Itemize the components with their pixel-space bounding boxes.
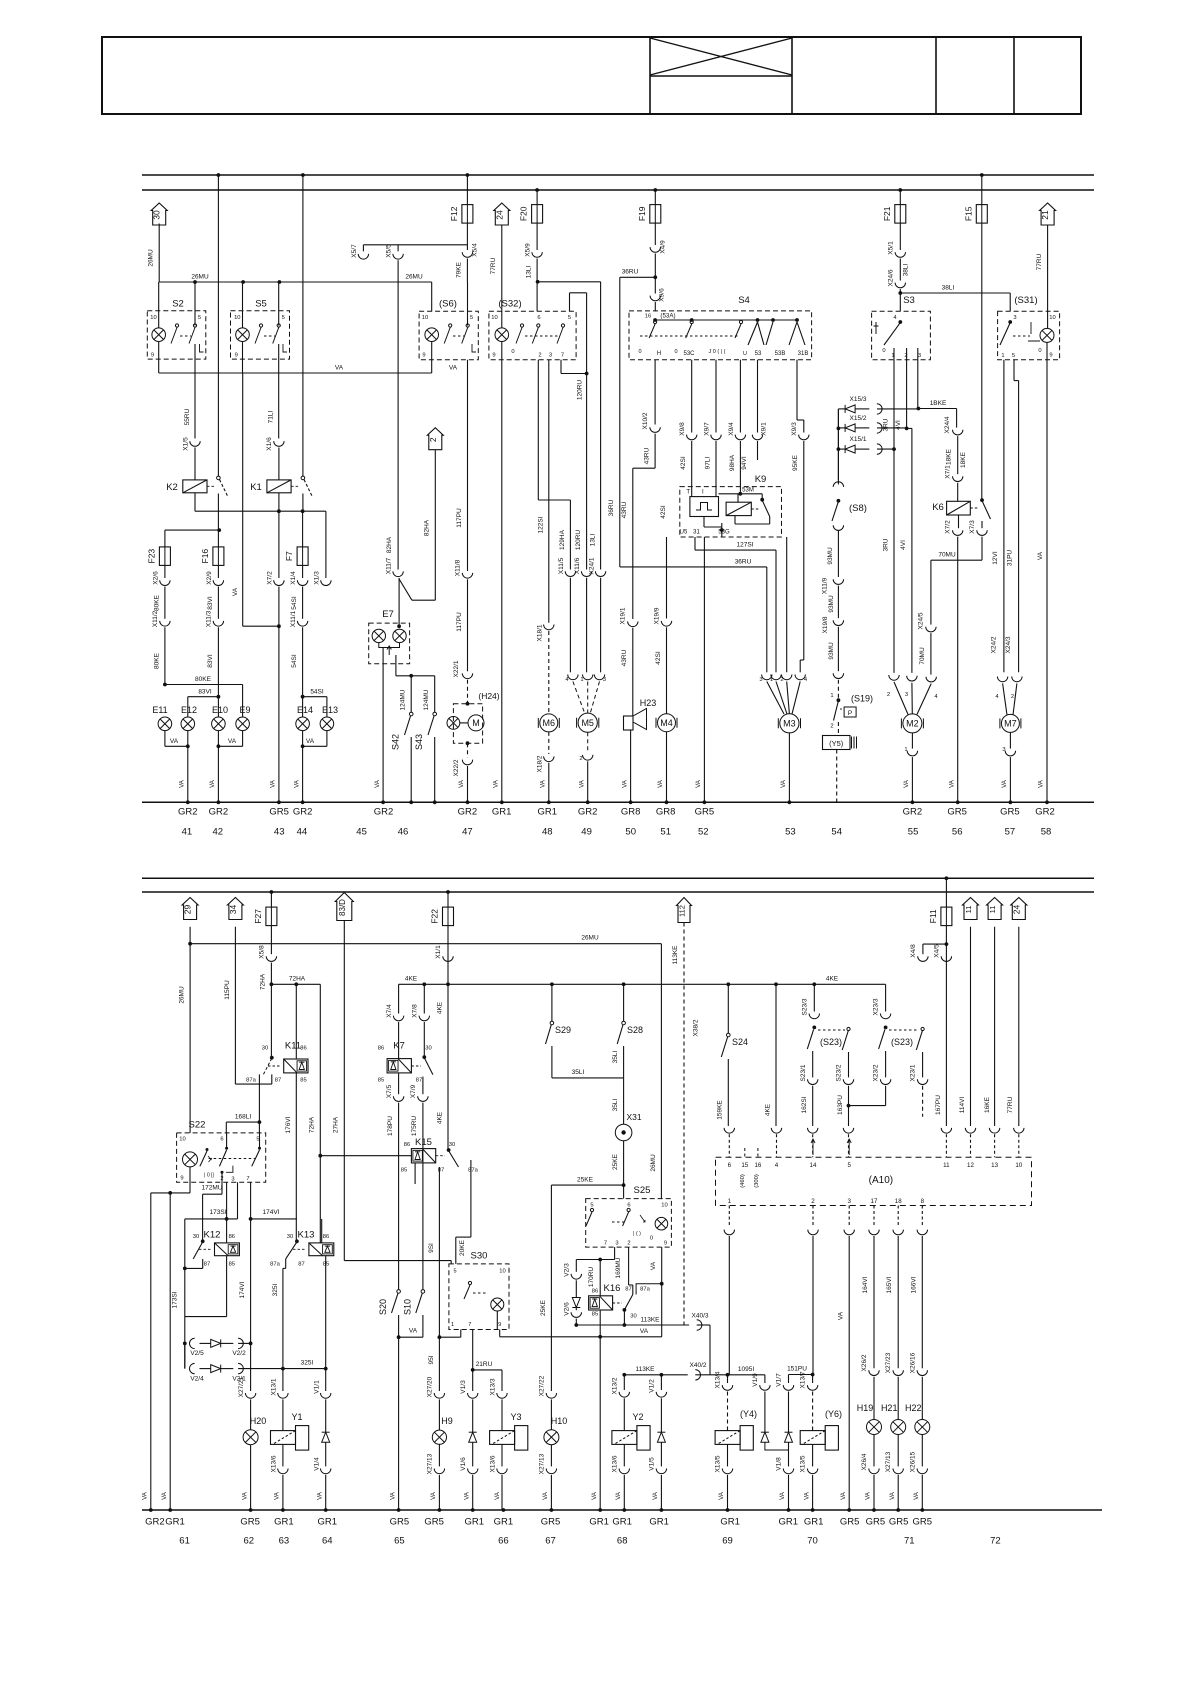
- wire K13 85 down: [325, 1256, 327, 1369]
- connector X26/4: [869, 1469, 879, 1474]
- wire S29 down: [551, 1046, 553, 1078]
- svg-text:GR2: GR2: [458, 807, 478, 818]
- ground junction: [1009, 800, 1013, 804]
- svg-text:5: 5: [1012, 353, 1015, 359]
- K7 contact pivot: [422, 1055, 426, 1059]
- svg-text:1BKE: 1BKE: [930, 400, 947, 407]
- connector X31: [615, 1124, 632, 1141]
- wire M2 lead 2: [894, 682, 908, 715]
- wire K1 contact out: [302, 494, 304, 512]
- svg-text:F7: F7: [284, 551, 294, 561]
- wire 4VI upper: [906, 360, 908, 429]
- svg-text:6: 6: [728, 1162, 732, 1169]
- svg-text:GR1: GR1: [779, 1517, 799, 1528]
- connector X26/15: [917, 1469, 927, 1474]
- svg-text:82HA: 82HA: [386, 536, 393, 553]
- svg-text:M5: M5: [581, 718, 594, 728]
- wire S30 lamp stub: [496, 1311, 498, 1330]
- wire Y2 down: [623, 1444, 625, 1466]
- svg-text:95I: 95I: [428, 1355, 435, 1364]
- svg-text:26MU: 26MU: [191, 273, 209, 280]
- lamp H21: [891, 1420, 906, 1435]
- svg-text:GR1: GR1: [538, 807, 558, 818]
- junction V2/2: [249, 1342, 253, 1346]
- lamp E9: [236, 717, 250, 731]
- relay K13 coil: [309, 1243, 334, 1256]
- svg-text:VA: VA: [542, 1491, 549, 1500]
- connector X5/5 stub: [397, 245, 399, 252]
- svg-text:82HA: 82HA: [424, 519, 431, 536]
- switch S42 pivot: [409, 712, 413, 716]
- svg-text:3: 3: [603, 677, 606, 683]
- junction 4KE S29: [550, 982, 554, 986]
- svg-text:VA: VA: [430, 1491, 437, 1500]
- A10 pin lead: [812, 1134, 814, 1157]
- svg-text:12VI: 12VI: [992, 551, 999, 565]
- connector X13/5 Y4: [722, 1469, 732, 1474]
- svg-text:30: 30: [193, 1234, 199, 1240]
- svg-text:48: 48: [542, 827, 553, 838]
- svg-text:127SI: 127SI: [737, 542, 754, 549]
- A10 bottom lead 18: [897, 1206, 899, 1228]
- svg-text:174VI: 174VI: [239, 1281, 246, 1298]
- connector X9/4: [735, 435, 745, 440]
- wire H9 ground: [438, 1475, 440, 1510]
- connector X27/13 H9: [434, 1469, 444, 1474]
- svg-text:S42: S42: [391, 734, 401, 750]
- wire to lamp H22: [921, 1377, 923, 1420]
- connector X1/6: [274, 441, 284, 446]
- svg-text:K6: K6: [932, 502, 944, 513]
- svg-text:VA: VA: [840, 1491, 847, 1500]
- pressure switch P box: [844, 707, 856, 717]
- wire S6 pin5 top: [467, 282, 469, 326]
- wire S20 ground: [398, 1337, 400, 1510]
- wire 71LI: [278, 344, 280, 439]
- svg-text:7: 7: [561, 353, 564, 359]
- wire X40/3 out: [697, 1324, 710, 1326]
- svg-text:25KE: 25KE: [577, 1176, 594, 1183]
- svg-text:95KE: 95KE: [792, 454, 799, 471]
- svg-text:13LI: 13LI: [526, 265, 533, 278]
- arrow 2: [427, 428, 443, 450]
- svg-text:26MU: 26MU: [148, 249, 155, 267]
- diode V1/5: [657, 1432, 665, 1442]
- svg-text:X2/6: X2/6: [153, 571, 160, 585]
- svg-text:2: 2: [811, 1198, 815, 1205]
- wire S42 ground: [410, 737, 412, 802]
- junction 113KE V2: [574, 1323, 578, 1327]
- wire E11-E12 join: [165, 745, 188, 747]
- svg-text:GR5: GR5: [913, 1517, 933, 1528]
- junction VA to ground wire: [277, 624, 281, 628]
- K13 link: [293, 1248, 306, 1250]
- wire S31 lamp ground: [1046, 342, 1048, 802]
- wire V1/3 drop: [472, 1370, 474, 1391]
- wire F20 to X5/9: [536, 223, 538, 250]
- S4 contact 31B arm1: [766, 322, 773, 345]
- svg-text:X27/21: X27/21: [238, 1376, 245, 1397]
- wire 162SI: [812, 1086, 814, 1126]
- svg-text:X24/2: X24/2: [991, 636, 998, 653]
- svg-text:(S23): (S23): [891, 1037, 913, 1047]
- svg-text:53B: 53B: [775, 351, 786, 357]
- svg-text:9: 9: [498, 1322, 501, 1328]
- svg-text:1: 1: [728, 1198, 732, 1205]
- svg-text:X26/16: X26/16: [909, 1352, 916, 1373]
- X23 link dash: [889, 1029, 919, 1031]
- connector X15/1: [877, 444, 882, 454]
- svg-text:113KE: 113KE: [640, 1317, 660, 1324]
- K9 inner wire e: [734, 516, 736, 524]
- svg-text:72HA: 72HA: [309, 1116, 316, 1133]
- svg-text:VA: VA: [306, 738, 315, 745]
- svg-text:42SI: 42SI: [660, 505, 667, 519]
- svg-text:F23: F23: [146, 549, 156, 564]
- connector X5/1: [895, 252, 905, 257]
- svg-text:VA: VA: [640, 1328, 649, 1335]
- connector X23/1: [917, 1079, 927, 1084]
- wire S22 lamp down: [189, 1167, 191, 1193]
- lamp E10: [212, 717, 226, 731]
- warning unit H24 box: [453, 704, 482, 744]
- svg-text:VA: VA: [718, 1491, 725, 1500]
- connector X27/20: [434, 1393, 444, 1398]
- K9 junction 53M: [738, 492, 742, 496]
- connector X13/1: [278, 1393, 288, 1398]
- ground junction bottom: [726, 1508, 730, 1512]
- svg-text:M: M: [472, 718, 480, 728]
- svg-text:S4: S4: [738, 295, 750, 306]
- svg-text:VA: VA: [335, 365, 344, 372]
- svg-text:X23/2: X23/2: [873, 1064, 880, 1081]
- svg-text:S5: S5: [255, 299, 267, 310]
- S22 contact 1 arm: [200, 1151, 207, 1166]
- svg-text:72: 72: [990, 1536, 1001, 1547]
- motor M7 pin 2: [1012, 677, 1022, 682]
- svg-text:3: 3: [918, 353, 921, 359]
- svg-text:18: 18: [895, 1198, 902, 1205]
- wire K16 30 down: [623, 1310, 625, 1325]
- junction S4 a: [653, 318, 657, 322]
- wire S22 ground link: [151, 1192, 190, 1194]
- switch S30 box: [449, 1264, 509, 1330]
- S6 contact link: [453, 335, 464, 337]
- wire to E12: [187, 697, 189, 717]
- wire X13/7 drop: [812, 1375, 814, 1384]
- junction 1BKE: [917, 407, 921, 411]
- wire VA S20 S10: [399, 1336, 423, 1338]
- svg-text:X1/3: X1/3: [314, 571, 321, 585]
- svg-text:GR5: GR5: [240, 1517, 260, 1528]
- ground junction bottom: [811, 1508, 815, 1512]
- K9 inner wire d: [735, 523, 770, 525]
- svg-text:S10: S10: [403, 1299, 413, 1315]
- relay K16 coil: [589, 1296, 613, 1310]
- svg-text:36RU: 36RU: [735, 558, 752, 565]
- ground junction: [788, 800, 792, 804]
- svg-text:77RU: 77RU: [490, 257, 497, 274]
- wire V1/7 drop: [788, 1375, 790, 1384]
- wire V1/6 down: [472, 1442, 474, 1466]
- wire 13LI: [536, 259, 538, 312]
- wire 20KE jog: [456, 1236, 471, 1238]
- svg-text:X19/8: X19/8: [822, 616, 829, 633]
- wire 95KE: [803, 441, 805, 660]
- wire V2/5 a: [200, 1342, 211, 1344]
- fuse F21: [895, 205, 906, 224]
- wire S30 pin7 down: [472, 1330, 474, 1370]
- wire S28 down: [623, 1046, 625, 1078]
- wire 26MU bottom: [190, 943, 661, 945]
- connector X11/6: [581, 571, 591, 576]
- svg-text:X13/3: X13/3: [490, 1378, 497, 1395]
- wire V1/7 to diode: [788, 1392, 790, 1433]
- wire S30 pin1 link: [439, 1336, 460, 1338]
- svg-text:87: 87: [416, 1078, 422, 1084]
- connector S8 bottom: [833, 525, 843, 530]
- svg-text:87: 87: [275, 1078, 281, 1084]
- wire pin18 down: [897, 1236, 899, 1368]
- connector X23/2: [880, 1079, 890, 1084]
- S6 contact 1: [444, 324, 452, 344]
- svg-text:GR1: GR1: [318, 1517, 338, 1528]
- svg-text:53: 53: [755, 351, 762, 357]
- S4 contact 53 arm1: [748, 322, 758, 345]
- S25 contact 1: [586, 1208, 594, 1226]
- fuse F27: [266, 907, 277, 926]
- svg-text:GR1: GR1: [274, 1517, 294, 1528]
- svg-text:97LI: 97LI: [705, 456, 712, 469]
- svg-text:5: 5: [590, 1203, 593, 1209]
- wire 18KE: [957, 436, 959, 474]
- svg-text:S23/2: S23/2: [836, 1064, 843, 1081]
- svg-text:72HA: 72HA: [289, 976, 306, 983]
- wire to ground 43: [278, 587, 280, 803]
- wire to V1/1: [325, 1369, 327, 1391]
- svg-text:H9: H9: [441, 1416, 453, 1426]
- wire H10 down: [550, 1445, 552, 1467]
- wire X15/3 mid: [855, 408, 869, 410]
- wire 174VI down: [250, 1219, 252, 1344]
- svg-text:80KE: 80KE: [154, 652, 161, 669]
- A10 pin14 arrow: [811, 1139, 815, 1155]
- svg-text:GR2: GR2: [578, 807, 598, 818]
- svg-text:X24/5: X24/5: [918, 612, 925, 629]
- wire X11/5 to arc: [569, 578, 571, 673]
- wire S25 pin3 link: [576, 1259, 614, 1261]
- svg-text:X7/1: X7/1: [945, 465, 952, 479]
- connector X13/3: [497, 1393, 507, 1398]
- lamp E11: [158, 717, 172, 731]
- A10 pin lead: [848, 1134, 850, 1157]
- lamp in S2: [152, 328, 166, 342]
- wire S24 down: [727, 1059, 729, 1126]
- junction on 26MU wire: [193, 280, 197, 284]
- svg-text:GR2: GR2: [145, 1517, 165, 1528]
- wire E13 down: [326, 731, 328, 747]
- K9 pulse unit box: [690, 497, 719, 517]
- svg-text:X13/5: X13/5: [800, 1455, 807, 1472]
- wire S19 to Y5: [837, 722, 839, 736]
- wire X27/21 to H20: [250, 1399, 252, 1429]
- motor M7 pin 3: [1005, 751, 1015, 756]
- wire pin8 down: [921, 1236, 923, 1368]
- wire S31 pin5 down b: [1018, 381, 1020, 673]
- relay K6 contact pivot: [980, 498, 984, 502]
- wire S8 to X11/9: [837, 530, 839, 577]
- connector above A10: [843, 1128, 853, 1133]
- svg-text:V2/5: V2/5: [190, 1350, 204, 1357]
- S4 contact 31B arm3: [797, 322, 805, 345]
- svg-text:0: 0: [511, 349, 514, 355]
- K9 junction 53G: [720, 528, 724, 532]
- svg-text:10: 10: [234, 315, 240, 321]
- svg-text:112: 112: [678, 905, 687, 917]
- wire K7 85 down: [398, 1073, 400, 1094]
- svg-text:(S31): (S31): [1014, 295, 1037, 306]
- wire H23 ground: [630, 730, 632, 802]
- svg-text:X5/1: X5/1: [888, 241, 895, 255]
- wire M4 ground: [666, 732, 668, 803]
- wire 129HA: [569, 500, 571, 570]
- K16 87 stub: [632, 1285, 634, 1295]
- svg-text:85: 85: [229, 1262, 235, 1268]
- svg-text:72HA: 72HA: [260, 973, 267, 990]
- svg-text:K2: K2: [166, 482, 178, 493]
- wire S43 ground: [434, 737, 436, 802]
- control unit A10 box: [716, 1157, 1032, 1205]
- svg-text:S3: S3: [903, 295, 915, 306]
- junction K11 86 feed: [294, 982, 298, 986]
- fuse F20: [532, 205, 543, 224]
- svg-text:X11/6: X11/6: [574, 557, 581, 574]
- wire 117PU: [467, 579, 469, 671]
- junction S4 c: [756, 318, 760, 322]
- diode V2 row2: [211, 1365, 221, 1373]
- switch X23 arm: [879, 1029, 885, 1049]
- bus line bottom B: [142, 891, 1094, 893]
- svg-text:GR1: GR1: [720, 1517, 740, 1528]
- S25 arrow mark: [640, 1215, 645, 1222]
- switch S10 arm: [416, 1293, 422, 1313]
- title block divider 2: [791, 37, 793, 114]
- connector V1/4: [321, 1469, 331, 1474]
- wire X9/6 to S4: [654, 302, 656, 311]
- wire pin2 jog: [629, 1284, 633, 1286]
- svg-text:9: 9: [151, 353, 154, 359]
- connector V2/2: [238, 1338, 243, 1348]
- wire M2 lead 4: [917, 684, 931, 715]
- wire K15 87a down: [470, 1172, 472, 1237]
- wire X27/20 to H9: [438, 1399, 440, 1430]
- wire V1/1 to diode: [325, 1399, 327, 1432]
- wire X11/6 to arc: [586, 578, 588, 673]
- svg-text:H22: H22: [905, 1403, 922, 1413]
- connector V1/6: [468, 1469, 478, 1474]
- wire K1 coil bottom: [278, 493, 280, 511]
- switch S43 pivot: [433, 712, 437, 716]
- svg-text:2: 2: [428, 437, 438, 442]
- switch S6 box: [419, 311, 478, 359]
- wire 38LI branch: [900, 292, 1010, 294]
- diode V8 a: [845, 405, 855, 413]
- svg-text:VA: VA: [578, 779, 585, 788]
- wire to H23: [632, 628, 634, 716]
- wire 43RU: [654, 434, 656, 469]
- wire VA ground GR1: [599, 1337, 601, 1510]
- wire S32 pin5 jog: [570, 292, 587, 294]
- switch S4 box: [629, 311, 812, 360]
- svg-text:26MU: 26MU: [178, 986, 185, 1004]
- wire 79KE: [466, 259, 468, 283]
- wire diode bus: [837, 409, 839, 485]
- arrow 112: [677, 898, 692, 923]
- svg-text:VA: VA: [179, 779, 186, 788]
- motor M5: [577, 713, 599, 732]
- wire F15 to K6: [981, 223, 983, 500]
- wire to F16: [217, 530, 219, 547]
- svg-text:3RU: 3RU: [883, 538, 890, 551]
- wire diode down: [325, 1442, 327, 1466]
- wire 4KE pin4: [775, 984, 777, 1126]
- svg-text:GR2: GR2: [293, 807, 313, 818]
- wire X18/1 to M6: [548, 631, 550, 714]
- wire to F7: [302, 511, 304, 547]
- arrow 34: [227, 898, 243, 920]
- wire 83VI to E12: [188, 696, 219, 698]
- wire M2 ground: [911, 757, 913, 802]
- wire E14-E13 join: [303, 745, 327, 747]
- svg-text:VA: VA: [463, 1491, 470, 1500]
- wire 54SI to E13: [303, 696, 327, 698]
- svg-text:Y1: Y1: [291, 1412, 302, 1422]
- wire V2/4 a: [200, 1368, 211, 1370]
- wire Y2 ground: [623, 1475, 625, 1510]
- svg-text:X7/4: X7/4: [386, 1004, 393, 1018]
- wire Y1 ground: [282, 1475, 284, 1510]
- svg-text:172MU: 172MU: [202, 1185, 223, 1192]
- wire 1BKE: [918, 408, 956, 410]
- wire X15/1 mid: [855, 448, 869, 450]
- wire X13/2 drop: [623, 1375, 625, 1390]
- wire X1/5 to K2: [194, 448, 196, 480]
- fuse F22: [443, 907, 454, 926]
- S23 contact pivot: [812, 1026, 816, 1030]
- connector X11/1: [297, 621, 307, 626]
- connector X7/2: [274, 580, 284, 585]
- svg-text:24: 24: [494, 210, 504, 220]
- svg-text:26MU: 26MU: [650, 1154, 657, 1172]
- svg-text:VA: VA: [838, 1311, 845, 1320]
- lamp E14: [296, 717, 310, 731]
- switch S24 pivot: [727, 1033, 731, 1037]
- valve Y2: [612, 1426, 650, 1451]
- svg-text:VA: VA: [409, 1328, 418, 1335]
- connector X13/7: [807, 1385, 817, 1390]
- K12 contact arm: [193, 1242, 203, 1259]
- connector X5/7 stub: [362, 245, 364, 252]
- junction K2 out: [217, 528, 221, 532]
- wire X7/4 drop: [398, 984, 400, 1013]
- S4 contact 53 arm2: [758, 322, 765, 345]
- wire to lamp H19: [873, 1377, 875, 1420]
- A10 bottom lead 2: [812, 1206, 814, 1228]
- connector X11/7: [393, 571, 403, 576]
- wire E7 left ground: [382, 648, 384, 803]
- svg-text:VA: VA: [494, 1491, 501, 1500]
- svg-text:S23/1: S23/1: [800, 1064, 807, 1081]
